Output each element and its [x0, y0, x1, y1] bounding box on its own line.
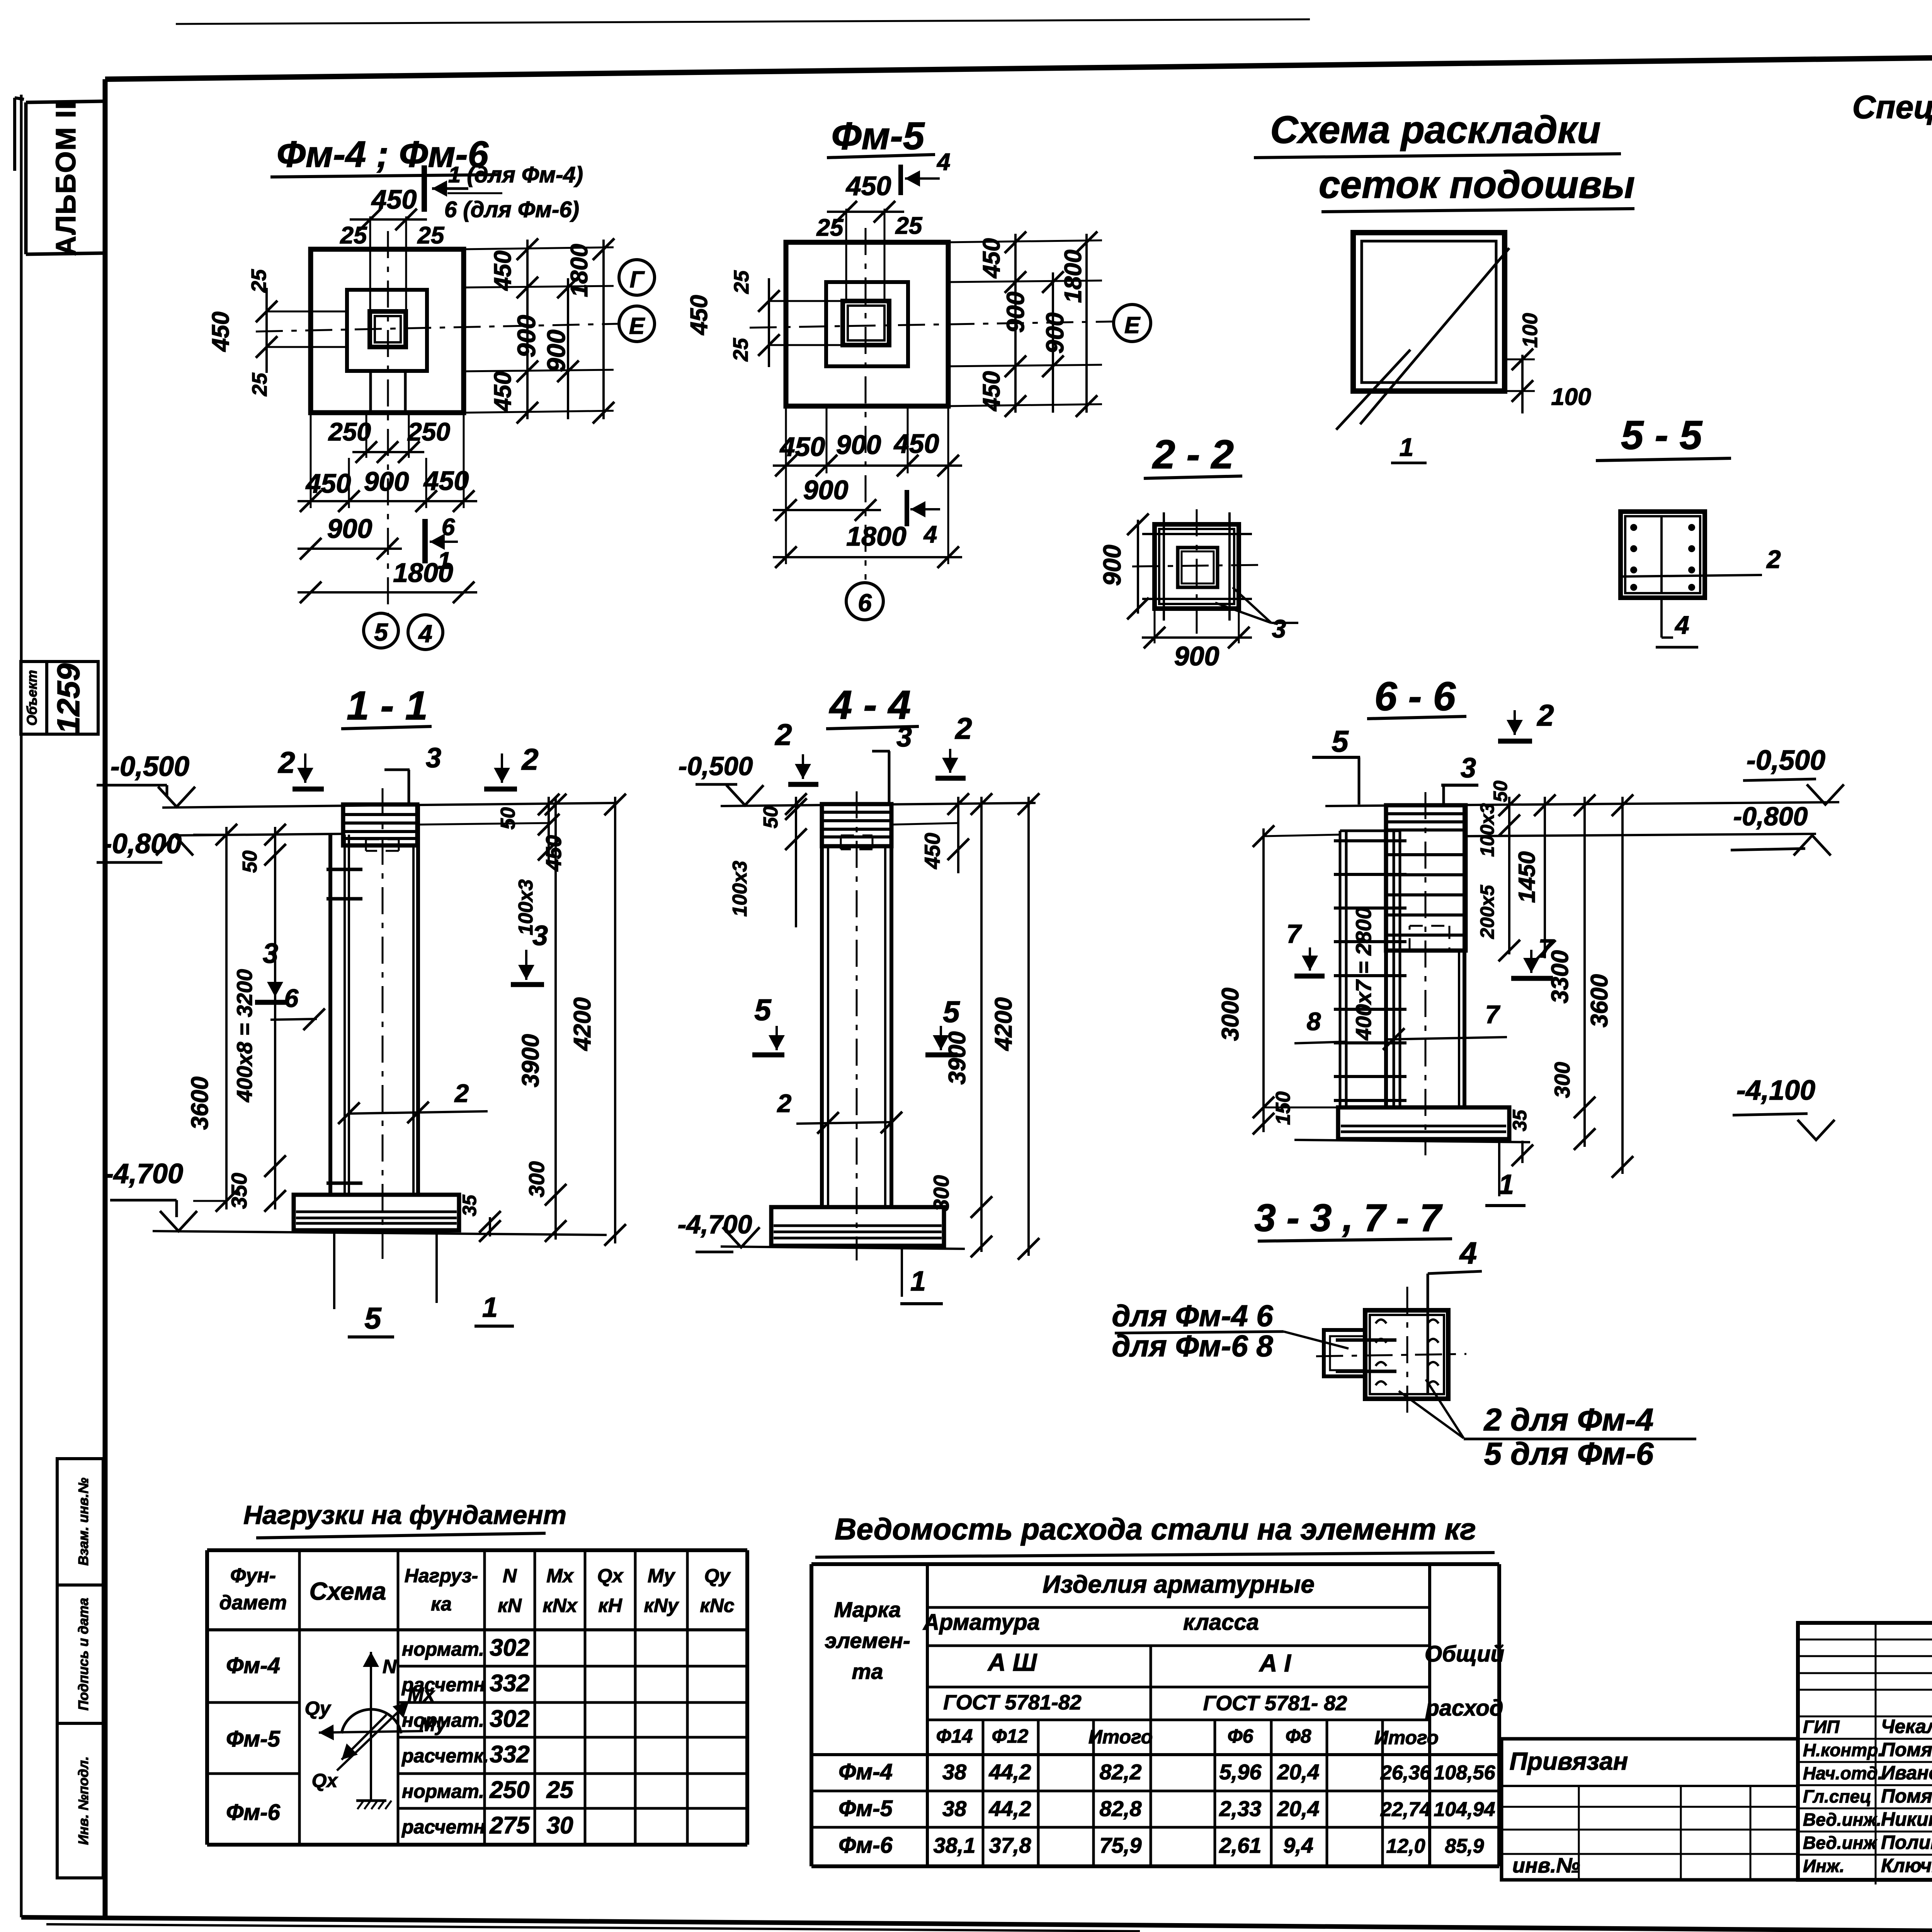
section 5-5 leader 4 — [1660, 598, 1663, 638]
svg-text:для Фм-6 8: для Фм-6 8 — [1112, 1329, 1273, 1363]
svg-text:Фм-4: Фм-4 — [226, 1653, 280, 1678]
svg-text:302: 302 — [490, 1634, 529, 1661]
svg-text:1: 1 — [482, 1292, 498, 1323]
svg-text:400х7 = 2800: 400х7 = 2800 — [1351, 907, 1376, 1041]
plan Фм-5 horizontal centerline — [750, 321, 1114, 328]
svg-text:4 - 4: 4 - 4 — [829, 682, 911, 728]
section 1-1 column centerline — [382, 788, 384, 1259]
section 4-4 right dim 450 — [891, 823, 958, 825]
svg-text:Арматура: Арматура — [922, 1610, 1040, 1635]
svg-text:2: 2 — [954, 711, 972, 745]
svg-text:25: 25 — [546, 1777, 574, 1803]
svg-text:5 - 5: 5 - 5 — [1621, 413, 1703, 458]
section 6-6 right dim 50/100x3/200x5 — [1508, 797, 1510, 954]
svg-text:4: 4 — [1459, 1236, 1477, 1270]
section 2-2 mesh bar lines — [1142, 533, 1252, 535]
svg-text:450: 450 — [541, 835, 566, 871]
svg-text:85,9: 85,9 — [1445, 1835, 1484, 1857]
svg-text:3900: 3900 — [517, 1034, 544, 1087]
plan Фм-4/Фм-6 bottom dim row 450/900/450 — [310, 413, 312, 508]
svg-text:900: 900 — [803, 475, 849, 505]
plan Фм-5 column stakan — [843, 301, 889, 345]
plan Фм-4/Фм-6 vertical centerline — [387, 231, 389, 614]
svg-text:2: 2 — [277, 745, 295, 779]
svg-text:1 (для Фм-4): 1 (для Фм-4) — [448, 162, 583, 187]
svg-text:100х3: 100х3 — [1476, 803, 1498, 857]
section 6-6 column faces — [1384, 951, 1388, 1107]
svg-text:2 - 2: 2 - 2 — [1152, 432, 1234, 477]
svg-text:50: 50 — [497, 807, 519, 830]
plan Фм-4/Фм-6 right dim line 1800 — [602, 240, 605, 419]
plan Фм-4/Фм-6 middle step 900x900 — [347, 290, 427, 371]
svg-text:5: 5 — [364, 1301, 382, 1335]
title block left small grid — [1502, 1806, 1798, 1808]
svg-text:Итого: Итого — [1088, 1726, 1153, 1748]
section 5-5 leader 2 — [1623, 575, 1762, 577]
svg-text:50: 50 — [760, 806, 782, 828]
svg-text:Помязов: Помязов — [1881, 1739, 1932, 1760]
svg-text:Qх: Qх — [312, 1770, 338, 1791]
svg-text:5,96: 5,96 — [1219, 1760, 1262, 1784]
svg-text:Нач.отд.: Нач.отд. — [1803, 1763, 1883, 1783]
detail stakan square — [1365, 1310, 1448, 1399]
svg-text:250: 250 — [328, 417, 371, 446]
svg-text:2: 2 — [1536, 698, 1554, 732]
svg-text:-4,700: -4,700 — [678, 1210, 752, 1239]
svg-text:450: 450 — [893, 429, 939, 459]
svg-text:450: 450 — [920, 833, 944, 869]
svg-text:3: 3 — [1272, 614, 1286, 643]
section 2-2 leader 3 — [1233, 587, 1271, 623]
svg-text:2: 2 — [774, 718, 792, 752]
grid axis circle 5 — [364, 613, 398, 648]
section 4-4 label 1 bottom — [901, 1247, 903, 1297]
svg-text:20,4: 20,4 — [1277, 1760, 1320, 1784]
section 6-6 ground line -4.100 — [1294, 1140, 1530, 1142]
svg-text:-4,700: -4,700 — [104, 1158, 183, 1189]
svg-text:82,8: 82,8 — [1100, 1796, 1142, 1821]
sheet frame left main border — [103, 79, 108, 1917]
svg-text:2: 2 — [777, 1089, 792, 1117]
grid axis circle Е — [619, 306, 655, 342]
schema mesh diagonal lines — [1360, 248, 1509, 424]
svg-text:25: 25 — [247, 269, 270, 293]
section 4-4 ground line — [721, 1247, 965, 1249]
sheet top scan crease line — [176, 19, 1310, 24]
svg-text:400х8 = 3200: 400х8 = 3200 — [232, 969, 257, 1102]
svg-text:N: N — [503, 1565, 517, 1587]
section 1-1 column outer faces — [328, 835, 332, 1195]
svg-text:N: N — [383, 1656, 397, 1677]
svg-text:-4,100: -4,100 — [1736, 1075, 1815, 1106]
svg-text:250: 250 — [407, 417, 450, 446]
plan Фм-4/Фм-6 pedestal edge lines — [369, 371, 372, 413]
svg-text:Qу: Qу — [305, 1697, 332, 1719]
svg-text:2,33: 2,33 — [1219, 1796, 1262, 1821]
section 6-6 ladder rungs — [1334, 839, 1406, 842]
svg-text:6 - 6: 6 - 6 — [1374, 674, 1456, 719]
svg-text:Привязан: Привязан — [1510, 1747, 1628, 1775]
svg-text:3 - 3 , 7 - 7: 3 - 3 , 7 - 7 — [1254, 1196, 1443, 1240]
section 6-6 centerline — [1425, 792, 1427, 1155]
svg-text:3: 3 — [1461, 753, 1476, 784]
section 5-5 rebar dots — [1630, 524, 1637, 531]
svg-text:5 для Фм-6: 5 для Фм-6 — [1484, 1436, 1654, 1471]
svg-text:Ф12: Ф12 — [992, 1725, 1029, 1747]
svg-text:900: 900 — [1174, 641, 1219, 671]
svg-text:кН: кН — [598, 1595, 622, 1616]
svg-text:25: 25 — [730, 270, 753, 294]
section 6-6 level line -0.800 — [1466, 834, 1816, 836]
plan Фм-5 left dims 25/450/25 — [769, 300, 843, 302]
svg-text:инв.№: инв.№ — [1512, 1854, 1580, 1877]
svg-text:Помязов: Помязов — [1881, 1785, 1932, 1807]
svg-text:44,2: 44,2 — [989, 1760, 1031, 1784]
section 5-5 stakan square — [1621, 512, 1705, 598]
svg-text:3600: 3600 — [187, 1077, 213, 1130]
section 6-6 right dim 3600 — [1621, 797, 1624, 1174]
svg-text:-0,500: -0,500 — [1747, 745, 1825, 776]
svg-text:ка: ка — [431, 1593, 452, 1615]
section 1-1 left dim 50 / 400x8=3200 / 350 — [274, 827, 276, 1209]
plan Фм-5 vertical centerline — [865, 228, 867, 580]
svg-text:25: 25 — [816, 214, 844, 241]
svg-text:12,0: 12,0 — [1386, 1835, 1425, 1857]
plan Фм-4/Фм-6 outer footing slab 1800x1800 — [311, 249, 464, 413]
svg-text:Объект: Объект — [24, 670, 40, 726]
section 4-4 column faces — [820, 804, 824, 1207]
section 4-4 leader bar 2 — [796, 1122, 893, 1124]
svg-text:4: 4 — [923, 521, 937, 548]
svg-text:5: 5 — [943, 995, 960, 1029]
svg-text:дамет: дамет — [219, 1592, 287, 1614]
svg-text:25: 25 — [248, 372, 271, 396]
svg-text:25: 25 — [729, 338, 752, 362]
svg-text:Н.контр.: Н.контр. — [1803, 1740, 1883, 1760]
section 4-4 dashed anchor box — [841, 835, 872, 837]
svg-text:Qу: Qу — [704, 1565, 731, 1587]
svg-text:450: 450 — [423, 466, 469, 496]
svg-text:300: 300 — [1550, 1062, 1574, 1098]
svg-text:2: 2 — [454, 1079, 469, 1107]
svg-text:900: 900 — [1098, 545, 1126, 586]
svg-text:100: 100 — [1519, 313, 1542, 348]
svg-text:-0,800: -0,800 — [1733, 802, 1808, 831]
detail centerlines — [1406, 1287, 1408, 1415]
svg-text:АЛЬБОМ II: АЛЬБОМ II — [51, 101, 82, 256]
svg-text:Схема: Схема — [310, 1577, 386, 1605]
schema dim 100 right vertical — [1505, 359, 1535, 361]
section 4-4 left dim 50 100x3 — [795, 797, 797, 927]
svg-text:1: 1 — [1498, 1169, 1514, 1200]
svg-text:38,1: 38,1 — [934, 1833, 976, 1857]
grid axis circle 6 — [846, 583, 883, 620]
section 1-1 dim 35 — [489, 1217, 491, 1236]
plan Фм-5 bottom dim row 450/900/450 — [785, 406, 787, 564]
section 1-1 right dim 3900 and 300 — [554, 797, 557, 1240]
svg-text:Фм-6: Фм-6 — [838, 1833, 893, 1858]
svg-text:900: 900 — [1002, 292, 1029, 333]
svg-text:Гл.спец: Гл.спец — [1803, 1786, 1871, 1806]
svg-text:3300: 3300 — [1547, 950, 1573, 1003]
svg-text:104,94: 104,94 — [1434, 1798, 1495, 1821]
section 4-4 right dim 4200 — [1027, 797, 1030, 1256]
svg-text:450: 450 — [490, 250, 516, 291]
svg-text:4: 4 — [1674, 611, 1689, 639]
svg-text:6 (для Фм-6): 6 (для Фм-6) — [444, 197, 579, 222]
section 6-6 leader bar 8 — [1294, 1042, 1346, 1043]
svg-text:кNу: кNу — [644, 1595, 679, 1616]
svg-text:Фм-5: Фм-5 — [832, 114, 925, 158]
section 6-6 left dim 3000 and 150 — [1264, 835, 1340, 836]
svg-text:Г: Г — [630, 267, 645, 293]
svg-text:900: 900 — [836, 430, 881, 460]
fold mark top left — [13, 98, 16, 171]
svg-text:3600: 3600 — [1586, 974, 1613, 1027]
svg-text:Е: Е — [1124, 312, 1141, 338]
svg-text:50: 50 — [239, 850, 261, 873]
svg-text:5: 5 — [1332, 724, 1349, 758]
svg-text:Никитина: Никитина — [1881, 1808, 1932, 1830]
svg-text:75,9: 75,9 — [1100, 1833, 1142, 1857]
svg-text:Схема раскладки: Схема раскладки — [1270, 108, 1600, 151]
svg-text:900: 900 — [542, 330, 570, 372]
svg-text:3900: 3900 — [944, 1031, 971, 1085]
section 5-5 inner vertical bar — [1660, 516, 1663, 593]
svg-text:4200: 4200 — [990, 997, 1017, 1051]
svg-text:300: 300 — [524, 1161, 549, 1197]
svg-text:класса: класса — [1183, 1610, 1259, 1635]
section 1-1 ground line -4.700 — [153, 1231, 607, 1235]
svg-text:Qх: Qх — [597, 1565, 624, 1587]
plan Фм-4/Фм-6 top dim 450 with 25/25 — [369, 216, 371, 311]
grid axis circle Г — [619, 260, 655, 295]
svg-text:450: 450 — [978, 371, 1005, 412]
svg-text:-0,500: -0,500 — [111, 751, 189, 782]
svg-text:108,56: 108,56 — [1434, 1762, 1495, 1784]
svg-text:1259: 1259 — [51, 663, 86, 734]
svg-text:1800: 1800 — [846, 521, 906, 551]
svg-text:Изделия арматурные: Изделия арматурные — [1043, 1570, 1315, 1598]
svg-text:22,74: 22,74 — [1380, 1798, 1431, 1821]
section 4-4 column centerline — [856, 791, 858, 1260]
section 1-1 left dim 3600 — [193, 834, 226, 836]
section 6-6 ladder cage verticals — [1339, 831, 1342, 1107]
section 4-4 top surface line — [721, 803, 1036, 806]
svg-text:Нагруз-: Нагруз- — [405, 1565, 478, 1587]
svg-text:25: 25 — [417, 222, 445, 249]
svg-text:Иванов: Иванов — [1881, 1762, 1932, 1784]
svg-text:9,4: 9,4 — [1283, 1833, 1313, 1857]
section 1-1 right dim 4200 — [614, 797, 616, 1243]
svg-text:100х3: 100х3 — [515, 879, 537, 935]
svg-text:200х5: 200х5 — [1476, 884, 1498, 939]
svg-text:25: 25 — [895, 213, 923, 239]
svg-text:300: 300 — [929, 1175, 953, 1211]
section 6-6 cut mark 7 right — [1530, 950, 1532, 973]
plan Фм-5 right dim line 1800 — [1085, 234, 1088, 413]
svg-text:332: 332 — [490, 1741, 529, 1768]
svg-text:8: 8 — [1307, 1007, 1321, 1036]
section 1-1 leader bar 2 — [348, 1111, 488, 1114]
svg-text:Ключникова: Ключникова — [1881, 1855, 1932, 1876]
section 6-6 cut mark 7 left — [1309, 947, 1311, 971]
svg-text:250: 250 — [489, 1777, 529, 1803]
sheet frame top border — [105, 49, 1932, 79]
stamp box Подпись и дата — [57, 1585, 103, 1723]
svg-text:Ф8: Ф8 — [1286, 1725, 1311, 1747]
svg-text:82,2: 82,2 — [1100, 1760, 1142, 1784]
title block small rows top left — [1798, 1639, 1932, 1641]
svg-text:6: 6 — [858, 589, 872, 617]
loads table grid — [207, 1548, 747, 1552]
svg-text:7: 7 — [1485, 1000, 1501, 1029]
stamp box Взам. инв. № — [57, 1459, 103, 1585]
svg-text:Му: Му — [648, 1565, 675, 1587]
section 1-1 foundation slab — [294, 1195, 459, 1230]
svg-text:20,4: 20,4 — [1277, 1796, 1320, 1821]
svg-text:450: 450 — [490, 371, 516, 412]
section 6-6 dashed anchor box — [1410, 925, 1449, 927]
section 6-6 right dim 1450 — [1544, 797, 1546, 958]
svg-text:та: та — [852, 1659, 883, 1684]
svg-text:Фм-5: Фм-5 — [838, 1796, 893, 1821]
svg-text:Нагрузки на фундамент: Нагрузки на фундамент — [243, 1500, 566, 1530]
title block privyazan box — [1502, 1739, 1798, 1880]
sheet frame bottom border — [21, 1917, 1932, 1932]
plan Фм-4/Фм-6 right extension lines — [464, 247, 614, 249]
section 6-6 leader bar 7 — [1386, 1037, 1507, 1039]
schema mesh plan square — [1353, 233, 1505, 391]
plan Фм-5 top dim 450 and 25/25 — [845, 209, 847, 301]
svg-text:450: 450 — [978, 238, 1005, 279]
svg-text:элемен-: элемен- — [825, 1628, 910, 1653]
plan Фм-5 right dim line 900 — [1052, 272, 1054, 413]
loads force scheme sketch — [370, 1652, 372, 1801]
stamp box Инв. № подл. — [57, 1723, 103, 1878]
svg-text:Чекалов: Чекалов — [1881, 1716, 1932, 1737]
svg-text:Фм-4: Фм-4 — [838, 1759, 893, 1784]
section 6-6 dim 35 — [1521, 1141, 1524, 1163]
svg-text:38: 38 — [942, 1760, 967, 1784]
svg-text:нормат.: нормат. — [402, 1781, 484, 1802]
svg-text:2,61: 2,61 — [1219, 1833, 1262, 1857]
svg-text:900: 900 — [1041, 313, 1069, 354]
svg-text:-0,500: -0,500 — [679, 752, 753, 781]
svg-text:450: 450 — [845, 171, 891, 201]
section 1-1 label 5 bottom — [333, 1230, 335, 1309]
plan Фм-4/Фм-6 bottom dim row 250/250 — [366, 413, 367, 458]
svg-text:кNх: кNх — [543, 1595, 578, 1616]
section 1-1 top surface line -0.500 — [162, 803, 617, 808]
svg-text:расход: расход — [1425, 1696, 1503, 1721]
svg-text:3000: 3000 — [1217, 988, 1244, 1041]
svg-text:6: 6 — [442, 514, 455, 541]
svg-text:6: 6 — [284, 984, 299, 1012]
section 2-2 left dim 900 — [1137, 520, 1139, 614]
svg-text:302: 302 — [490, 1706, 529, 1732]
svg-text:Вед.инж.: Вед.инж. — [1803, 1810, 1881, 1830]
svg-text:332: 332 — [490, 1670, 529, 1697]
grid axis circle Е plan Фм-5 — [1114, 304, 1151, 342]
svg-text:1450: 1450 — [1514, 851, 1540, 903]
svg-text:А I: А I — [1259, 1649, 1291, 1677]
svg-text:900: 900 — [327, 514, 372, 544]
svg-text:4200: 4200 — [569, 997, 596, 1051]
svg-text:7: 7 — [1286, 919, 1302, 949]
svg-text:Спецификация фундаментов Фм-: Спецификация фундаментов Фм-4;Фм-5;Фм-6 — [1852, 89, 1932, 125]
svg-text:5: 5 — [754, 993, 772, 1027]
svg-text:25: 25 — [340, 222, 367, 249]
svg-text:кNс: кNс — [700, 1595, 734, 1616]
svg-text:расчетн: расчетн — [401, 1674, 485, 1696]
plan Фм-4/Фм-6 right dim line 900 — [567, 278, 569, 419]
sheet frame left edge line — [20, 95, 23, 1917]
detail bar 4 vertical — [1427, 1311, 1429, 1394]
svg-text:1800: 1800 — [566, 244, 593, 297]
svg-text:Марка: Марка — [834, 1597, 901, 1622]
plan Фм-4/Фм-6 bottom dim row 900 with cut 6/1 — [298, 548, 402, 550]
section 2-2 bottom dim 900 — [1154, 609, 1156, 643]
svg-text:Инж.: Инж. — [1803, 1856, 1845, 1876]
svg-text:1800: 1800 — [393, 558, 453, 588]
svg-text:450: 450 — [305, 468, 351, 498]
svg-text:Инв. №подл.: Инв. №подл. — [75, 1756, 91, 1845]
svg-text:3: 3 — [896, 722, 912, 753]
section 1-1 right dim 50/450/100x3 — [418, 823, 549, 825]
plan Фм-4/Фм-6 horizontal centerline — [256, 324, 617, 332]
svg-text:Поликарпова: Поликарпова — [1881, 1832, 1932, 1853]
section 6-6 cap mesh block — [1386, 805, 1466, 951]
section 1-1 column inner lines — [344, 835, 346, 1195]
svg-text:1 - 1: 1 - 1 — [347, 683, 428, 728]
grid axis circle 4 — [408, 615, 443, 650]
svg-text:275: 275 — [489, 1812, 530, 1839]
svg-text:37,8: 37,8 — [989, 1833, 1032, 1857]
plan Фм-4/Фм-6 section cut symbol 1/6 top — [422, 165, 427, 212]
section 1-1 leader bar 6 — [270, 1019, 317, 1020]
svg-text:350: 350 — [227, 1173, 251, 1209]
plan Фм-4/Фм-6 left dims 25/450/25 — [267, 311, 347, 313]
svg-text:1800: 1800 — [1060, 250, 1087, 303]
svg-text:Итого: Итого — [1374, 1727, 1439, 1748]
plan Фм-4/Фм-6 right dim line 450/900/450 — [526, 240, 529, 419]
svg-text:сеток подошвы: сеток подошвы — [1319, 163, 1635, 206]
section 2-2 pedestal square — [1155, 524, 1239, 609]
svg-text:Фм-5: Фм-5 — [226, 1726, 281, 1752]
svg-text:Ф6: Ф6 — [1228, 1725, 1254, 1747]
svg-text:900: 900 — [364, 466, 409, 497]
svg-text:Ведомость расхода стали на: Ведомость расхода стали на элемент кг — [835, 1512, 1476, 1546]
section 6-6 right dim 3300 + 300 — [1583, 797, 1586, 1147]
section 4-4 right dim 3900 + 300 — [980, 797, 983, 1252]
plan Фм-5 right dim line 450/900/450 — [1014, 234, 1017, 413]
svg-text:расчетк.: расчетк. — [401, 1745, 489, 1767]
svg-text:100: 100 — [1551, 384, 1591, 410]
section 1-1 column top mesh cap — [343, 804, 417, 845]
svg-text:100х3: 100х3 — [729, 861, 751, 917]
svg-text:450: 450 — [371, 184, 417, 214]
svg-text:Фм-6: Фм-6 — [226, 1800, 281, 1825]
section 2-2 inner stakan square — [1178, 548, 1218, 587]
section 1-1 tie hook bars — [327, 868, 362, 871]
svg-text:Фун-: Фун- — [230, 1565, 276, 1587]
svg-text:450: 450 — [207, 311, 234, 352]
detail horizontal bars — [1336, 1338, 1396, 1342]
section 6-6 foundation slab — [1338, 1107, 1509, 1139]
plan Фм-5 section cut symbol 4 top — [898, 165, 903, 195]
svg-text:2: 2 — [1766, 545, 1781, 573]
